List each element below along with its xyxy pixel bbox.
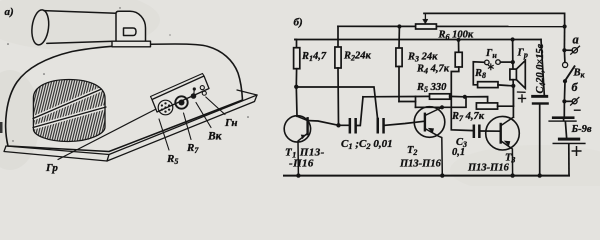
svg-text:R5 330: R5 330 — [416, 82, 447, 94]
svg-text:Б-9в: Б-9в — [571, 124, 592, 135]
svg-text:Гр: Гр — [45, 162, 58, 174]
svg-text:а): а) — [5, 6, 14, 18]
svg-text:R7 4,7к: R7 4,7к — [451, 111, 485, 123]
svg-text:б: б — [572, 80, 579, 94]
svg-text:а: а — [573, 33, 579, 47]
svg-text:R224к: R224к — [343, 51, 372, 63]
svg-text:0,1: 0,1 — [452, 147, 465, 158]
svg-text:-П16: -П16 — [289, 158, 314, 170]
svg-text:Гн: Гн — [224, 117, 237, 129]
svg-text:R6 100к: R6 100к — [438, 30, 474, 42]
svg-text:R4 4,7к: R4 4,7к — [416, 64, 450, 76]
svg-text:б): б) — [294, 17, 303, 29]
svg-text:R14,7: R14,7 — [301, 51, 327, 63]
svg-text:П13-П16: П13-П16 — [399, 159, 442, 170]
svg-text:Вк: Вк — [207, 131, 223, 143]
svg-text:R3 24к: R3 24к — [407, 52, 438, 64]
svg-text:П13-П16: П13-П16 — [467, 163, 510, 174]
